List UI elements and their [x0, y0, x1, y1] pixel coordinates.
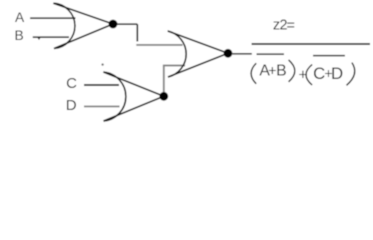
OR gate U1 (A,B inputs)	[53, 3, 113, 48]
wire U2 output to expression	[232, 53, 251, 55]
svg-text:B: B	[276, 63, 287, 80]
svg-text:A: A	[15, 10, 25, 25]
net label z2=	[273, 17, 295, 34]
wire into U2 top input (gray)	[136, 44, 182, 46]
OR gate U2 (final)	[168, 31, 228, 77]
svg-text:D: D	[331, 64, 343, 83]
wire into U2 bottom input (gray)	[163, 65, 185, 67]
expression right paren 1	[289, 60, 295, 82]
wire B input	[33, 37, 69, 39]
negation bar over A+B	[257, 53, 285, 55]
expression text C+D	[313, 64, 343, 83]
junction dot at gate U1 output	[109, 20, 118, 29]
junction dot at gate U3 output	[159, 92, 168, 101]
expression left paren 2	[306, 65, 312, 86]
svg-text:D: D	[66, 97, 77, 114]
wire C input	[84, 84, 119, 86]
expression text A+B	[259, 62, 286, 79]
svg-text:=: =	[287, 18, 295, 34]
negation bar over C+D	[313, 55, 345, 57]
wire D input (gray)	[84, 105, 120, 107]
junction dot at gate U2 output	[224, 49, 233, 58]
negation bar over whole expression	[252, 43, 370, 45]
wire U3 output vertical rise (gray)	[163, 66, 165, 93]
expression left paren 1	[251, 63, 256, 84]
wire A input	[30, 17, 75, 19]
svg-text:B: B	[15, 28, 24, 43]
expression right paren 2	[347, 63, 355, 86]
wire U1 output vertical drop	[136, 24, 138, 41]
svg-text:C: C	[66, 75, 77, 92]
wire U1 output horizontal	[117, 23, 137, 25]
stray speck artifact	[101, 63, 103, 65]
OR gate U3 (C,D inputs)	[103, 72, 163, 121]
